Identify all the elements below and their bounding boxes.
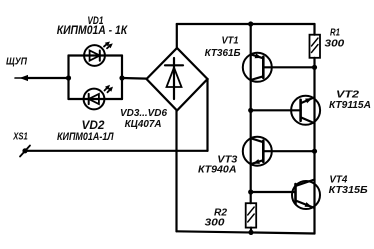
wire LED branch to bridge [122, 77, 147, 80]
svg-text:300: 300 [205, 218, 225, 229]
svg-text:XS1: XS1 [13, 131, 29, 142]
node junction left of LED branch [66, 75, 71, 80]
transistor VT1 [243, 53, 315, 82]
svg-text:КИПМ01А - 1К: КИПМ01А - 1К [57, 25, 128, 37]
LED VD1 [84, 42, 113, 66]
node junction bus B / VT3 base [312, 149, 317, 154]
probe arrow terminal [15, 75, 30, 81]
node junction R1 bottom / VT1 base [312, 65, 317, 70]
wire bus A (top rail to R2) [250, 24, 252, 203]
svg-text:КТ940А: КТ940А [198, 163, 237, 175]
wire bridge top lead [176, 24, 178, 48]
transistor VT4 [251, 180, 320, 210]
node junction bus A / VT4 base / R2 [248, 189, 253, 194]
svg-text:ЩУП: ЩУП [6, 56, 27, 68]
svg-text:КИПМ01А-1Л: КИПМ01А-1Л [57, 131, 114, 143]
wire bridge bottom lead down [175, 111, 177, 232]
transistor VT2 [251, 96, 320, 125]
node junction right of LED branch [119, 75, 124, 80]
wire LED branch right vertical [121, 56, 123, 100]
svg-text:КТ9115А: КТ9115А [329, 99, 371, 111]
wire bottom rail [177, 231, 315, 233]
svg-text:300: 300 [325, 39, 345, 50]
diode symbol inside bridge [165, 58, 183, 99]
resistor R2 [246, 203, 257, 232]
resistor R1 [310, 24, 321, 67]
svg-text:R1: R1 [330, 27, 340, 38]
wire bus B (R1 junction to bottom rail) [313, 67, 315, 233]
transistor VT3 [243, 137, 315, 166]
node junction bottom rail / R2 [248, 230, 253, 235]
svg-text:КТ361Б: КТ361Б [205, 47, 242, 59]
wire LED bottom branch [69, 98, 123, 100]
wire bridge right vertex down [206, 79, 208, 151]
wire probe to LED branch [28, 77, 69, 79]
wire LED top branch [69, 54, 123, 56]
svg-text:VT1: VT1 [222, 36, 239, 47]
node junction bus A / VT2 base [248, 108, 253, 113]
svg-text:КЦ407А: КЦ407А [125, 118, 162, 130]
wire XS1 to bridge right vertex [26, 150, 208, 152]
LED VD2 [84, 85, 113, 110]
connector XS1 [20, 146, 30, 157]
svg-text:КТ315Б: КТ315Б [329, 184, 369, 196]
node junction top rail / bus A [248, 21, 253, 26]
wire top rail [177, 23, 315, 25]
bridge rectifier VD3..VD6 [147, 48, 208, 111]
wire LED branch left vertical [67, 56, 69, 100]
